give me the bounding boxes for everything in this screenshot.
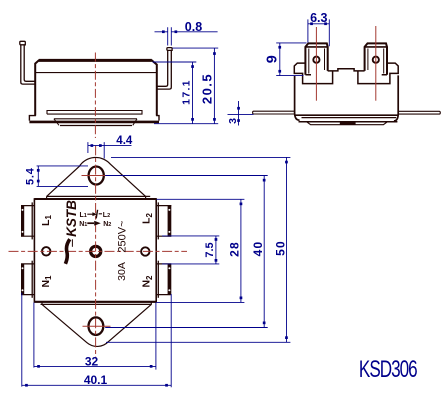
end view left mounting tab [253,111,295,114]
end view contact blob [340,121,356,125]
dimension 40.1 [22,293,171,388]
dimension 20.5 [154,48,218,124]
side view body outline [35,60,157,115]
end view housing [294,63,398,121]
svg-text:5.4: 5.4 [25,167,37,185]
bottom hole cross line [83,325,111,327]
end view right tab [365,43,387,74]
svg-text:4.4: 4.4 [116,135,133,147]
svg-text:N1: N1 [79,221,87,228]
dimension 0.8 [155,27,218,45]
end view flange line [295,114,398,116]
svg-text:0.8: 0.8 [185,20,202,34]
dimension 50 [106,157,290,342]
dimension 4.4 [88,142,132,158]
side view right terminal [157,48,172,90]
svg-text:17.1: 17.1 [180,79,192,105]
dimension 40 [105,176,268,328]
side view lid inner line [35,72,157,74]
dimension 5.4 [37,166,88,187]
swoosh symbol [65,239,69,264]
terminal N2 stub [156,261,171,298]
svg-text:40: 40 [251,241,265,257]
end view left tab [305,43,327,74]
dimension 6.3 [308,19,329,46]
front view vertical center line [95,145,97,358]
end view left tab hole [313,57,319,63]
dimension 28 [157,199,245,302]
side view left terminal [20,41,35,84]
left rivet [42,247,50,255]
end view right tab hole [373,57,379,63]
svg-text:250V~: 250V~ [117,220,129,252]
front view top flange [47,157,151,199]
center rivet [89,245,102,258]
svg-text:6.3: 6.3 [310,11,327,25]
svg-text:32: 32 [85,354,99,368]
svg-text:7.5: 7.5 [204,242,216,257]
end view center line right [375,26,377,101]
side view center line [94,53,96,139]
svg-text:KSTB: KSTB [64,200,79,237]
side view base plate [29,111,159,126]
svg-text:L2: L2 [103,212,110,219]
svg-text:L1: L1 [80,212,87,219]
svg-text:40.1: 40.1 [84,373,108,387]
svg-text:KSD306: KSD306 [359,356,417,382]
svg-text:28: 28 [228,241,242,257]
end view center line left [315,27,317,101]
front view horizontal center line [9,250,188,252]
svg-text:N2: N2 [103,221,111,228]
svg-text:9: 9 [265,55,281,63]
svg-text:20.5: 20.5 [199,73,214,104]
svg-text:30A: 30A [116,262,128,281]
svg-text:3: 3 [227,118,239,124]
front view top hole [89,167,104,185]
dimension 9 [276,43,306,76]
svg-text:50: 50 [273,240,287,256]
front view body [34,199,156,302]
terminal L2 stub [156,202,171,239]
top hole cross line [82,175,112,177]
terminal N1 stub [21,261,34,298]
terminal L1 stub [21,202,34,239]
dimension 17.1 [153,62,197,124]
front view bottom hole [89,317,104,335]
dimension 3 [228,101,254,126]
dimension 32 [34,303,156,370]
front view bottom flange [41,302,152,347]
dimension 7.5 [162,236,219,264]
right rivet [141,247,149,255]
end view sensing plate [299,118,398,125]
end view right mounting tab [399,111,440,114]
